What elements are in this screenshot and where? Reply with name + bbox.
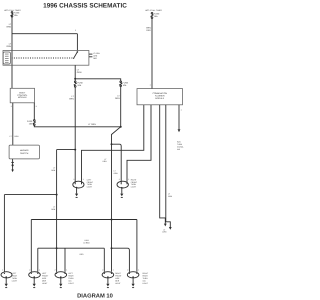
node J2 <box>120 126 122 128</box>
flasher pin 3 wire <box>160 105 166 224</box>
lamp E6 right side marker <box>102 272 114 278</box>
wire left feed down to BCM <box>11 17 13 88</box>
ground G6 <box>107 277 109 283</box>
dashed link <box>12 57 74 59</box>
svg-text:HOT AT ALL TIMES: HOT AT ALL TIMES <box>145 9 162 12</box>
fuse F4 top right <box>151 12 153 18</box>
svg-text:1: 1 <box>113 269 114 272</box>
wire corner down <box>103 248 105 272</box>
svg-text:2: 2 <box>29 269 30 272</box>
fuse F1 top left <box>11 12 13 17</box>
wire branch right <box>75 79 121 81</box>
flasher pin 4 wire <box>166 105 171 227</box>
svg-text:MODULE: MODULE <box>155 97 165 100</box>
svg-text:2: 2 <box>127 269 128 272</box>
wire branch to far left <box>4 194 56 196</box>
rear cross horizontal <box>38 247 105 249</box>
svg-text:GRN: GRN <box>6 45 11 48</box>
turn signal switch box <box>3 51 89 66</box>
hazard switch S2 <box>9 145 39 159</box>
wire from switch bottom <box>74 65 76 80</box>
svg-text:10A: 10A <box>123 84 127 87</box>
svg-text:18 RED: 18 RED <box>83 242 90 245</box>
wire diagonal jog <box>112 127 121 220</box>
ground G5 <box>60 277 62 283</box>
fuse F2 main <box>74 81 76 87</box>
lamp E2 right front turn <box>117 181 128 188</box>
long feed wire <box>34 125 120 126</box>
wire center long down <box>111 220 113 272</box>
fuse F5 <box>33 120 35 126</box>
svg-text:15A: 15A <box>154 15 158 18</box>
node J4 <box>56 194 58 196</box>
BCM U1 <box>10 88 34 103</box>
lamp E1 left front turn <box>73 181 84 188</box>
svg-text:1: 1 <box>150 83 151 86</box>
wire lamp feed right front <box>111 143 113 145</box>
svg-text:GRN: GRN <box>69 97 74 100</box>
svg-text:10A: 10A <box>29 122 33 125</box>
svg-text:LT GRN: LT GRN <box>88 123 96 126</box>
svg-text:2: 2 <box>55 269 56 272</box>
switch pins right <box>89 53 93 55</box>
svg-text:GRN: GRN <box>14 135 19 138</box>
svg-text:GRN: GRN <box>103 160 108 163</box>
svg-text:HAZARD: HAZARD <box>20 149 29 152</box>
svg-text:1: 1 <box>2 269 3 272</box>
svg-text:LIGHT: LIGHT <box>42 282 48 285</box>
svg-text:1996 CHASSIS SCHEMATIC: 1996 CHASSIS SCHEMATIC <box>43 3 127 10</box>
flasher pin 5 stub with arrow <box>178 105 180 130</box>
wire from flasher pin 2 <box>127 105 151 182</box>
wire branch to switch <box>12 33 77 35</box>
svg-text:1: 1 <box>181 108 182 111</box>
svg-text:1: 1 <box>138 269 139 272</box>
svg-text:LIGHT: LIGHT <box>12 279 18 282</box>
wire from flasher pin 1 <box>82 105 144 182</box>
svg-text:2: 2 <box>73 178 74 181</box>
wire far left down <box>3 195 5 272</box>
wire BCM left pin down <box>12 103 14 145</box>
wire dev2 right lead <box>37 248 39 272</box>
wire dev3 leads <box>64 248 66 272</box>
svg-text:2: 2 <box>119 178 120 181</box>
switch blade <box>77 51 79 53</box>
svg-text:GRN: GRN <box>115 97 120 100</box>
svg-text:DIAGRAM 10: DIAGRAM 10 <box>77 293 113 300</box>
svg-text:1: 1 <box>39 269 40 272</box>
wire right feed <box>151 18 153 89</box>
wire hazard pin down <box>12 159 14 170</box>
svg-text:LIGHT: LIGHT <box>115 282 121 285</box>
wire left column <box>56 150 58 272</box>
wire BCM right pin down <box>33 103 35 120</box>
svg-text:GRN: GRN <box>162 231 167 234</box>
svg-text:GRN: GRN <box>114 172 119 175</box>
svg-text:GRN: GRN <box>77 71 82 74</box>
svg-text:GRN: GRN <box>51 169 56 172</box>
svg-text:RED: RED <box>146 29 151 32</box>
ground G4 <box>33 277 35 283</box>
lamp E5 left rear turn signal <box>55 272 67 278</box>
svg-text:GRN: GRN <box>6 25 11 28</box>
node junction <box>74 78 76 80</box>
svg-text:10A: 10A <box>14 14 18 17</box>
ground G7 <box>132 277 134 283</box>
wire main down <box>74 87 76 149</box>
ground G1 <box>76 188 78 194</box>
wire down from fuse F3 <box>120 87 122 127</box>
lamp E7 right rear turn <box>127 272 139 278</box>
svg-text:GRN: GRN <box>51 208 56 211</box>
connector C1 <box>3 52 10 64</box>
rear bus horizontal <box>31 219 137 221</box>
svg-text:SWITCH: SWITCH <box>20 152 29 155</box>
svg-text:1: 1 <box>66 269 67 272</box>
lamp E4 left side marker <box>29 272 41 278</box>
svg-text:LIGHT: LIGHT <box>143 282 149 285</box>
svg-text:SW: SW <box>177 148 180 151</box>
svg-text:LIGHT: LIGHT <box>87 186 93 189</box>
lamp E3 left rear turn <box>1 272 12 278</box>
node J3 <box>74 149 76 151</box>
wire left marker drop <box>30 220 32 272</box>
wire right marker path <box>136 220 138 272</box>
fuse F3 right branch <box>120 81 122 87</box>
svg-text:10A: 10A <box>77 84 81 87</box>
combination flasher box U2 <box>137 89 183 105</box>
svg-text:GRN: GRN <box>168 195 173 198</box>
svg-text:2: 2 <box>11 105 12 108</box>
svg-text:LIGHT: LIGHT <box>131 186 137 189</box>
wire branch left <box>57 149 76 151</box>
wire lamp feed left front <box>74 150 76 182</box>
svg-text:2: 2 <box>102 269 103 272</box>
svg-text:MODULE: MODULE <box>18 96 28 99</box>
svg-text:1: 1 <box>128 178 129 181</box>
svg-text:5: 5 <box>75 29 76 32</box>
svg-text:LIGHT: LIGHT <box>68 282 74 285</box>
ground G3 <box>5 277 7 283</box>
svg-text:1: 1 <box>83 178 84 181</box>
svg-text:3: 3 <box>36 105 37 108</box>
svg-text:S204: S204 <box>84 239 88 242</box>
ground G2 <box>121 188 123 194</box>
